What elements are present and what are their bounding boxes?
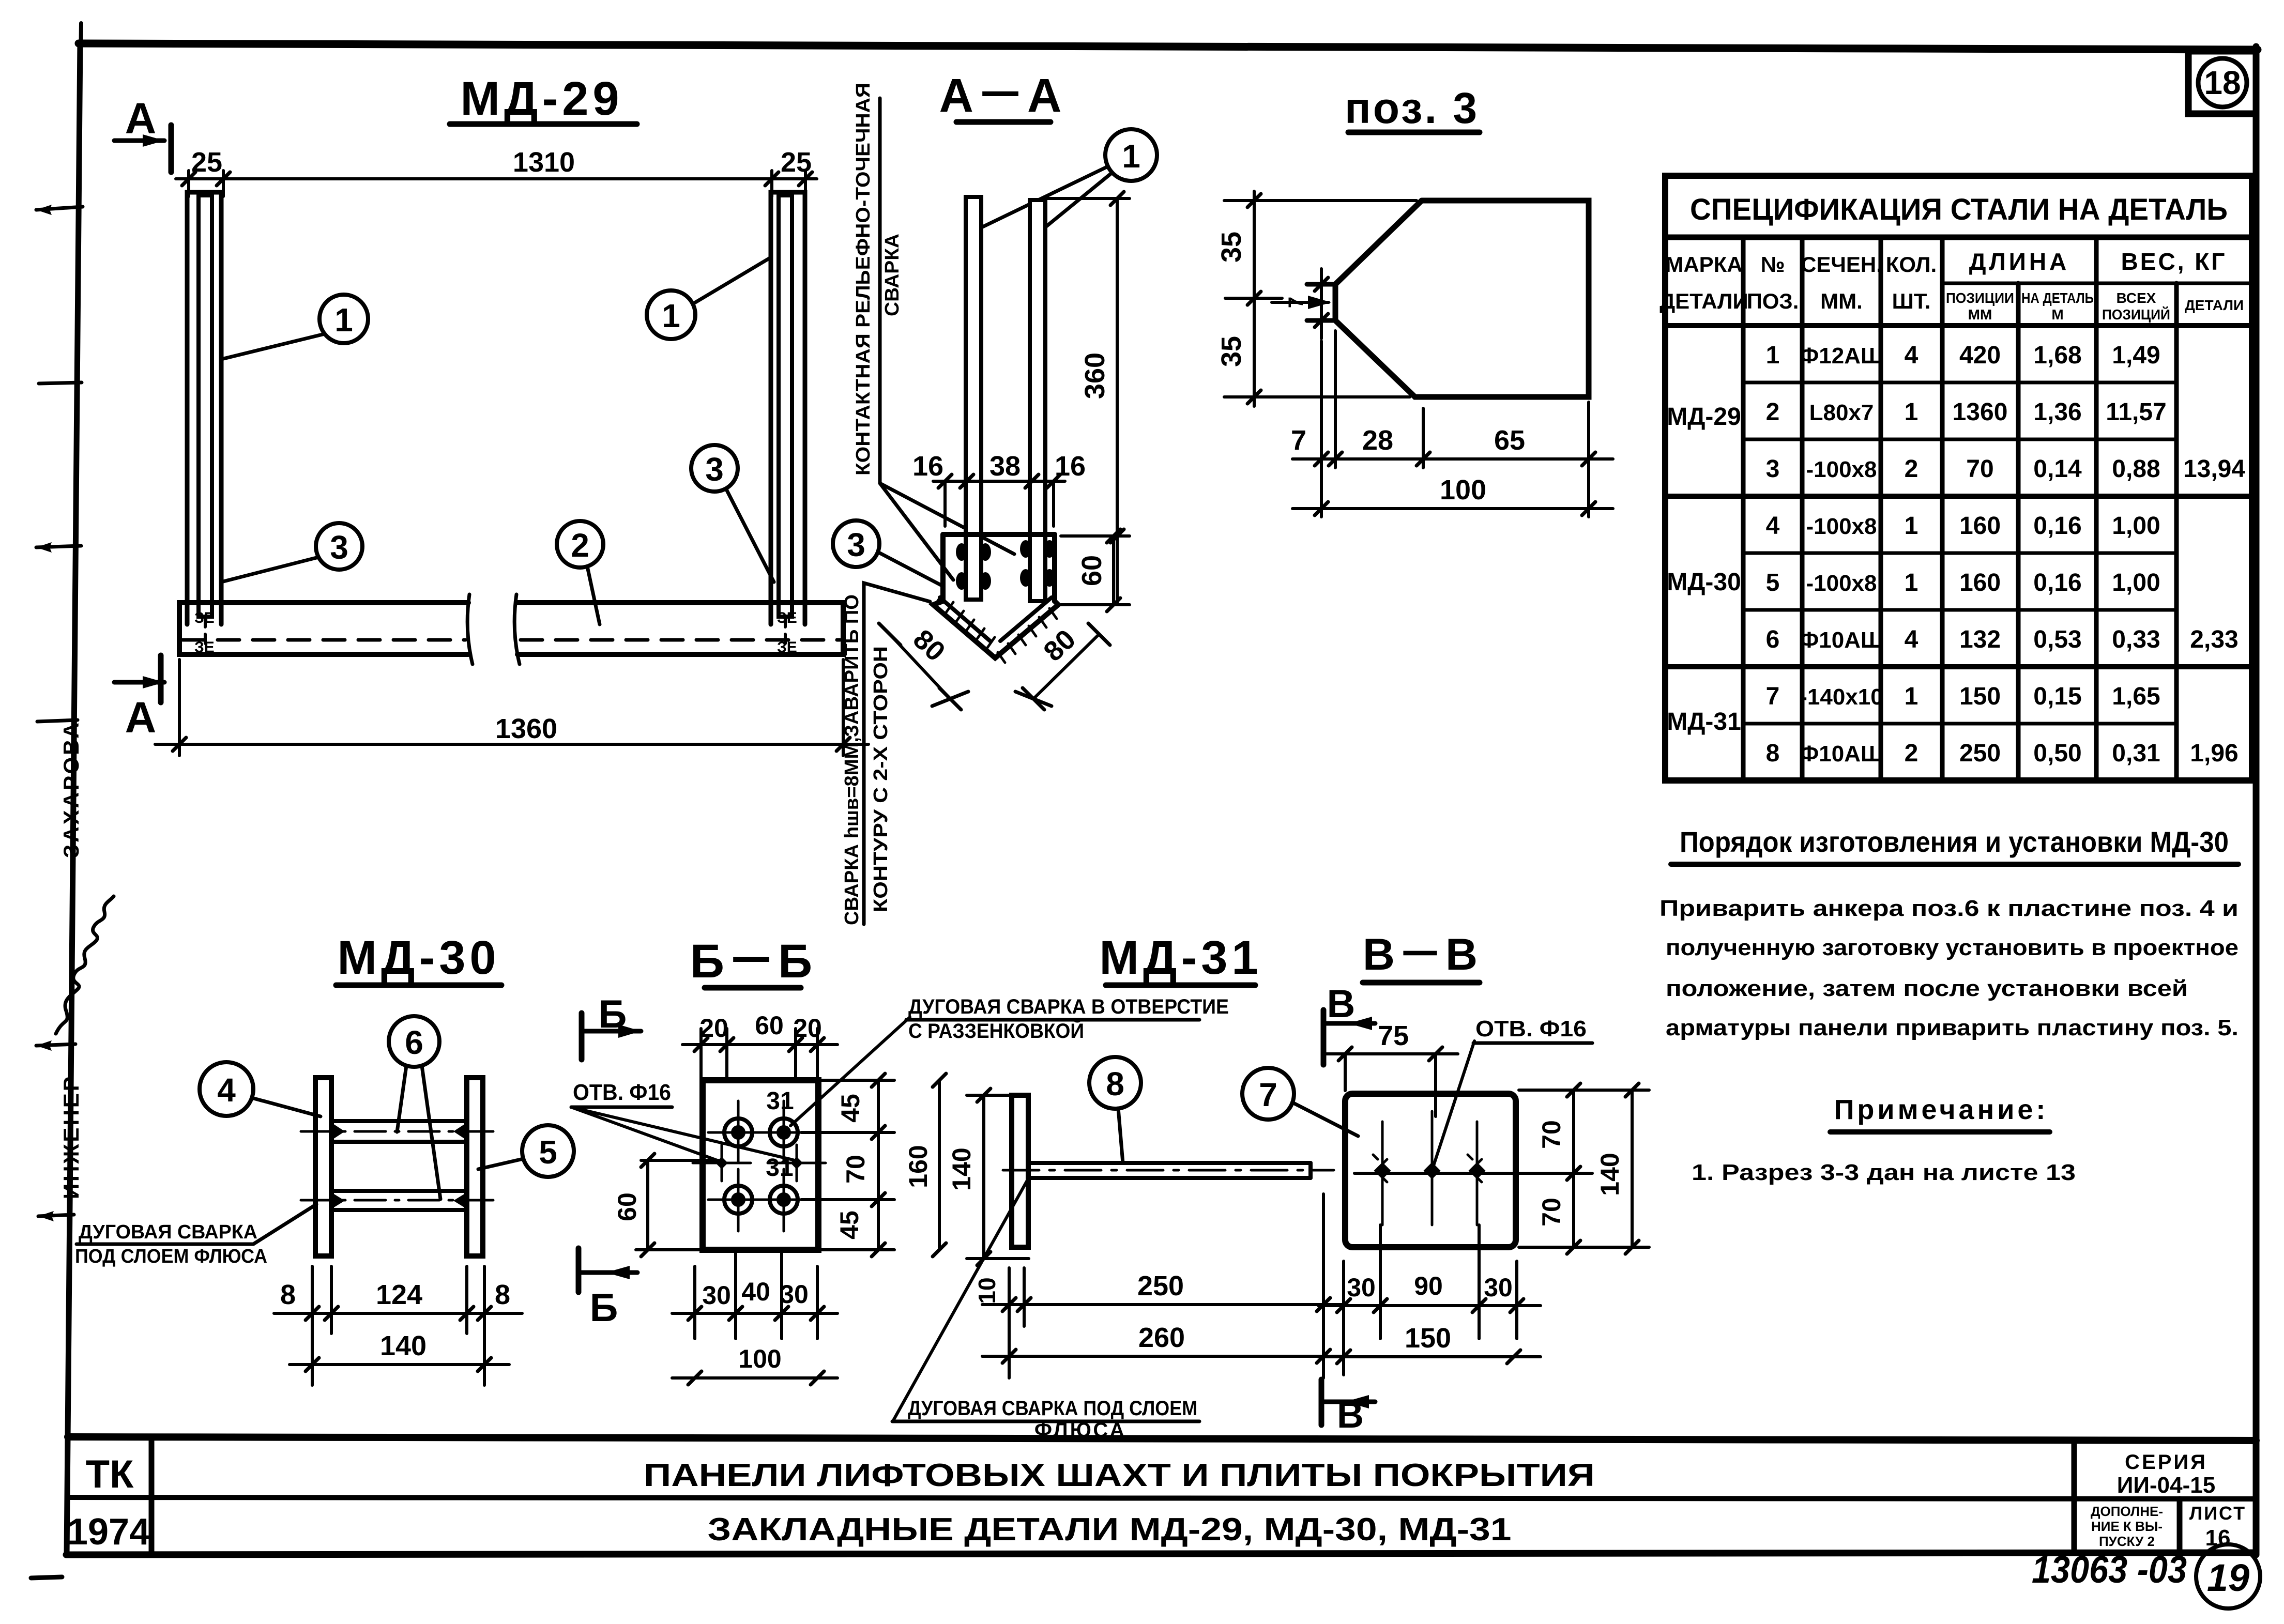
svg-text:ЗЕ: ЗЕ [777, 609, 797, 626]
weld hatch on V (A-A) [936, 593, 1057, 663]
right plate pos.5 [467, 1078, 483, 1256]
svg-text:ЗЕ: ЗЕ [194, 639, 215, 656]
svg-text:160: 160 [904, 1145, 933, 1188]
svg-text:1: 1 [662, 297, 680, 334]
svg-text:Приварить анкера поз.6 к пласт: Приварить анкера поз.6 к пластине поз. 4… [1659, 896, 2239, 921]
svg-text:А－А: А－А [939, 69, 1065, 122]
svg-text:4: 4 [217, 1071, 236, 1109]
svg-text:3: 3 [847, 526, 865, 563]
svg-text:А: А [125, 693, 157, 742]
svg-text:0,16: 0,16 [2033, 512, 2081, 540]
anchor bar bottom pos.6 [301, 1191, 497, 1210]
title В-В [1363, 930, 1481, 983]
table row 2 [1766, 399, 2167, 426]
svg-text:КОНТАКТНАЯ РЕЛЬЕФНО-ТОЧЕЧНАЯ: КОНТАКТНАЯ РЕЛЬЕФНО-ТОЧЕЧНАЯ [852, 83, 874, 476]
section mark В top [1323, 982, 1375, 1065]
heading Порядок изготовления и установки МД-30 [1671, 825, 2239, 864]
svg-text:100: 100 [738, 1344, 781, 1373]
svg-text:ММ.: ММ. [1820, 289, 1863, 313]
svg-text:150: 150 [1959, 683, 2001, 710]
svg-text:1,96: 1,96 [2190, 740, 2238, 767]
svg-text:70: 70 [841, 1155, 870, 1184]
dims 70 70 right (В-В) [1519, 1083, 1649, 1254]
svg-text:ТК: ТК [86, 1452, 134, 1496]
svg-text:1360: 1360 [1953, 399, 2008, 426]
svg-text:В: В [1327, 982, 1356, 1026]
dim 140 right (В-В) [1595, 1083, 1639, 1254]
svg-text:0,31: 0,31 [2112, 740, 2160, 767]
svg-text:Б－Б: Б－Б [690, 935, 815, 988]
svg-text:8: 8 [1766, 740, 1780, 767]
svg-text:1,00: 1,00 [2112, 512, 2160, 540]
left plate pos.4 [315, 1078, 331, 1256]
svg-text:МД-31: МД-31 [1099, 931, 1262, 984]
dim 75 (В-В) [1323, 1020, 1458, 1116]
svg-text:ШТ.: ШТ. [1892, 289, 1931, 313]
svg-text:ВСЕХ: ВСЕХ [2116, 290, 2156, 306]
dims 10 250 (МД-31) [973, 1194, 1344, 1378]
sheet number box (18) top right [2188, 51, 2256, 114]
svg-text:140: 140 [1595, 1153, 1624, 1196]
dim 360 (A-A) [1045, 192, 1130, 605]
svg-text:поз. 3: поз. 3 [1345, 84, 1479, 132]
svg-text:ЗЕ: ЗЕ [194, 609, 215, 626]
svg-text:140: 140 [947, 1147, 976, 1190]
svg-text:1: 1 [1905, 683, 1918, 710]
svg-text:45: 45 [835, 1211, 864, 1239]
svg-text:СЕЧЕН.: СЕЧЕН. [1801, 252, 1882, 277]
svg-text:ПАНЕЛИ ЛИФТОВЫХ ШАХТ И ПЛИТЫ П: ПАНЕЛИ ЛИФТОВЫХ ШАХТ И ПЛИТЫ ПОКРЫТИЯ [644, 1458, 1595, 1493]
svg-text:ЗАКЛАДНЫЕ ДЕТАЛИ МД-29, МД-30,: ЗАКЛАДНЫЕ ДЕТАЛИ МД-29, МД-30, МД-31 [708, 1512, 1512, 1548]
svg-text:3: 3 [705, 451, 724, 488]
vertical note СВАРКА h=8ММ ЗАВАРИТЬ ПО КОНТУРУ С 2-Х СТОРОН [841, 583, 930, 925]
label ОТВ. Ф 16 (Б-Б) [571, 1080, 793, 1161]
svg-text:арматуры панели приварить плас: арматуры панели приварить пластину поз. … [1666, 1015, 2239, 1040]
svg-text:140: 140 [380, 1330, 427, 1361]
svg-text:65: 65 [1494, 425, 1525, 456]
plate pos.3 in section (A-A) [933, 534, 1058, 658]
table grid [1665, 176, 2252, 780]
dim 60 (A-A) [1061, 529, 1130, 611]
dims 30 40 30 bottom (Б-Б) [672, 1250, 838, 1339]
plate pos.7 (МД-31) [1012, 1095, 1028, 1247]
svg-text:1: 1 [1122, 137, 1140, 175]
svg-text:СЕРИЯ: СЕРИЯ [2125, 1451, 2207, 1474]
svg-text:1,65: 1,65 [2112, 683, 2160, 710]
table row 6 [1766, 626, 2239, 653]
dim 25 right (top) [765, 147, 817, 196]
svg-text:СВАРКА: СВАРКА [881, 234, 903, 316]
plate поз.3 outline [1307, 201, 1589, 397]
svg-text:28: 28 [1362, 425, 1393, 456]
svg-text:ДУГОВАЯ СВАРКА: ДУГОВАЯ СВАРКА [79, 1221, 257, 1243]
balloon 3 (A-A) [833, 520, 943, 586]
fold marks on left border [31, 205, 83, 1578]
table row 7 [1766, 683, 2160, 710]
svg-text:45: 45 [836, 1094, 865, 1123]
svg-text:ЛИСТ: ЛИСТ [2189, 1503, 2246, 1524]
dim 80 left slanted (A-A) [879, 623, 968, 710]
table row 8 [1766, 740, 2239, 767]
anchor rod left (A-A) [966, 197, 981, 600]
svg-text:ПОЗИЦИИ: ПОЗИЦИИ [1946, 290, 2014, 306]
svg-text:ЗАХАРОВА: ЗАХАРОВА [59, 721, 83, 858]
balloon 4 [200, 1062, 321, 1116]
svg-text:38: 38 [989, 451, 1021, 482]
svg-text:2: 2 [1905, 455, 1918, 483]
svg-text:1: 1 [334, 301, 353, 339]
dim 260 (МД-31) [982, 1322, 1344, 1363]
svg-text:260: 260 [1138, 1322, 1185, 1353]
svg-text:ПУСКУ 2: ПУСКУ 2 [2099, 1534, 2155, 1549]
right angle bar (pos 1 assembly) [771, 192, 805, 650]
svg-text:2,33: 2,33 [2190, 626, 2238, 653]
svg-text:2: 2 [1905, 740, 1918, 767]
svg-text:ОТВ. Ф16: ОТВ. Ф16 [1475, 1016, 1587, 1041]
svg-text:5: 5 [539, 1133, 557, 1171]
svg-text:30: 30 [1347, 1273, 1376, 1302]
table group labels [1667, 403, 1741, 736]
svg-text:8: 8 [280, 1279, 296, 1310]
table row 5 [1766, 569, 2160, 596]
title А-А [939, 69, 1065, 122]
svg-text:35: 35 [1216, 232, 1247, 263]
dim 140 (МД-30) [290, 1330, 509, 1371]
svg-text:4: 4 [1766, 512, 1780, 540]
title МД-31 [1099, 931, 1262, 985]
balloon 1 (left) [221, 295, 368, 359]
svg-text:А: А [125, 94, 157, 143]
dim 1360 (bottom) [155, 660, 869, 756]
section mark Б bottom [578, 1248, 637, 1330]
balloon 3 (right) [691, 445, 774, 582]
handwritten circle 19 [2196, 1544, 2260, 1608]
svg-text:18: 18 [2204, 64, 2241, 101]
svg-text:16: 16 [912, 451, 943, 482]
svg-text:ДУГОВАЯ СВАРКА В ОТВЕРСТИЕ: ДУГОВАЯ СВАРКА В ОТВЕРСТИЕ [908, 995, 1229, 1018]
svg-text:7: 7 [1766, 683, 1780, 710]
svg-text:90: 90 [1414, 1271, 1443, 1300]
title поз.3 [1345, 84, 1480, 132]
dims 30 90 30 bottom (В-В) [1318, 1225, 1541, 1375]
svg-text:Ф12АШ: Ф12АШ [1800, 343, 1884, 369]
apex arrow (поз.3) [1272, 269, 1331, 339]
left angle bar (pos 1 assembly) [187, 192, 221, 650]
title МД-30 [336, 931, 501, 985]
svg-text:ВЕС, КГ: ВЕС, КГ [2121, 248, 2227, 275]
svg-text:13,94: 13,94 [2183, 455, 2245, 483]
svg-text:1: 1 [1905, 399, 1918, 426]
svg-text:360: 360 [1079, 353, 1110, 399]
cell СЕРИЯ ИИ-04-15 [2117, 1451, 2215, 1498]
table row 3 [1766, 455, 2246, 483]
svg-text:30: 30 [780, 1280, 809, 1309]
svg-text:1,00: 1,00 [2112, 569, 2160, 596]
svg-text:ПОЗИЦИЙ: ПОЗИЦИЙ [2102, 306, 2170, 323]
svg-text:С РАЗЗЕНКОВКОЙ: С РАЗЗЕНКОВКОЙ [908, 1019, 1084, 1043]
dim 1310 (top) [235, 147, 772, 179]
svg-text:полученную заготовку установит: полученную заготовку установить в проект… [1666, 935, 2239, 960]
svg-text:2: 2 [571, 527, 589, 564]
cell ЛИСТ 16 [2189, 1503, 2246, 1551]
anchor bar top pos.6 [301, 1121, 497, 1142]
section mark Б top [582, 992, 641, 1060]
svg-text:1,68: 1,68 [2033, 342, 2081, 369]
svg-text:МД-31: МД-31 [1667, 708, 1741, 736]
svg-text:МД-29: МД-29 [460, 72, 623, 125]
contact weld spots (A-A) [956, 540, 1055, 590]
hole labels 31 (Б-Б) [766, 1087, 794, 1182]
heading Примечание [1830, 1094, 2050, 1132]
svg-text:8: 8 [495, 1279, 510, 1310]
svg-text:0,14: 0,14 [2033, 455, 2082, 483]
svg-text:124: 124 [376, 1279, 422, 1310]
svg-text:19: 19 [2207, 1556, 2249, 1599]
svg-text:3: 3 [330, 529, 348, 566]
svg-text:Б: Б [590, 1286, 618, 1330]
svg-text:L80x7: L80x7 [1809, 400, 1874, 425]
svg-text:1974: 1974 [67, 1511, 150, 1553]
balloon 5 [478, 1125, 574, 1177]
left margin vertical label ИНЖЕНЕР [59, 1075, 83, 1199]
svg-text:Ф10АШ: Ф10АШ [1800, 741, 1884, 767]
svg-text:ПОД СЛОЕМ ФЛЮСА: ПОД СЛОЕМ ФЛЮСА [75, 1246, 267, 1267]
dim 140 (МД-31 plate height) [947, 1089, 1029, 1265]
dim 16 38 16 (A-A) [912, 451, 1086, 526]
svg-text:1: 1 [1766, 342, 1780, 369]
svg-text:7: 7 [1285, 297, 1307, 308]
label ОТВ. Ф 16 (В-В) [1433, 1016, 1592, 1167]
holes (В-В) [1354, 1111, 1543, 1225]
label ДУГОВАЯ СВАРКА В ОТВЕРСТИЕ С РАЗЗЕНКОВКОЙ [790, 995, 1229, 1126]
svg-text:35: 35 [1216, 336, 1247, 367]
svg-text:СВАРКА hшв=8ММ,ЗАВАРИТЬ ПО: СВАРКА hшв=8ММ,ЗАВАРИТЬ ПО [841, 594, 863, 925]
svg-text:6: 6 [405, 1024, 423, 1061]
svg-text:НА ДЕТАЛЬ: НА ДЕТАЛЬ [2021, 290, 2094, 306]
svg-text:31: 31 [766, 1087, 794, 1115]
svg-text:5: 5 [1766, 569, 1780, 596]
svg-text:60: 60 [1076, 555, 1107, 586]
svg-text:100: 100 [1440, 474, 1486, 505]
svg-text:В: В [1337, 1395, 1364, 1436]
svg-text:0,33: 0,33 [2112, 626, 2160, 653]
dim 60 left (Б-Б) [613, 1154, 719, 1257]
svg-text:1,36: 1,36 [2033, 399, 2081, 426]
svg-text:420: 420 [1959, 342, 2001, 369]
svg-text:1: 1 [1905, 512, 1918, 540]
svg-text:НИЕ К ВЫ-: НИЕ К ВЫ- [2091, 1519, 2163, 1534]
svg-text:70: 70 [1537, 1198, 1566, 1227]
svg-text:150: 150 [1405, 1323, 1451, 1354]
svg-text:ОТВ. Ф16: ОТВ. Ф16 [573, 1080, 671, 1105]
svg-text:8: 8 [1106, 1065, 1124, 1102]
dims 20 60 20 top (Б-Б) [682, 1011, 838, 1078]
svg-text:ДЕТАЛИ: ДЕТАЛИ [1659, 289, 1748, 313]
svg-text:20: 20 [793, 1014, 822, 1043]
balloon 8 [1089, 1057, 1141, 1163]
svg-text:положение, затем после установ: положение, затем после установки всей [1666, 976, 2188, 1001]
svg-text:160: 160 [1959, 512, 2001, 540]
title МД-29 [450, 72, 637, 125]
svg-text:1. Разрез 3-3 дан на листе 13: 1. Разрез 3-3 дан на листе 13 [1692, 1160, 2076, 1185]
balloon 3 (left) [221, 523, 362, 582]
svg-text:0,88: 0,88 [2112, 455, 2160, 483]
svg-text:3: 3 [1766, 455, 1780, 483]
svg-text:ИИ-04-15: ИИ-04-15 [2117, 1473, 2215, 1498]
bottom plate (pos 2, angle L80x7) [179, 594, 843, 664]
svg-text:ИНЖЕНЕР: ИНЖЕНЕР [59, 1075, 83, 1199]
svg-text:Примечание:: Примечание: [1834, 1094, 2049, 1125]
title Б-Б [690, 935, 815, 988]
svg-text:20: 20 [699, 1014, 728, 1043]
svg-text:М: М [2051, 307, 2063, 323]
dim 80 right slanted (A-A) [1015, 623, 1110, 710]
cell дополнение к выпуску 2 [2091, 1504, 2163, 1549]
left margin vertical label ЗАХАРОВА [59, 721, 83, 858]
svg-text:25: 25 [781, 147, 812, 178]
svg-text:В－В: В－В [1363, 930, 1481, 979]
table row 4 [1766, 512, 2160, 540]
svg-text:ДЕТАЛИ: ДЕТАЛИ [2185, 297, 2244, 313]
svg-text:Б: Б [599, 992, 627, 1036]
dim 160 (Б-Б) [904, 1074, 946, 1257]
svg-text:Ф10АШ: Ф10АШ [1800, 627, 1884, 653]
svg-text:60: 60 [613, 1192, 642, 1221]
svg-text:1310: 1310 [513, 147, 575, 178]
svg-text:-100x8: -100x8 [1806, 514, 1877, 539]
balloon 6 [389, 1016, 440, 1199]
plate В-В [1345, 1094, 1516, 1247]
label ДУГОВАЯ СВАРКА ПОД СЛОЕМ ФЛЮСА (МД-31) [892, 1179, 1199, 1442]
svg-text:1: 1 [1905, 569, 1918, 596]
section mark A bottom [114, 655, 164, 742]
svg-text:ММ: ММ [1968, 307, 1992, 323]
dim 150 bottom (В-В) [1318, 1323, 1541, 1363]
svg-text:4: 4 [1905, 626, 1918, 653]
svg-text:-140x10: -140x10 [1800, 684, 1883, 710]
svg-text:СПЕЦИФИКАЦИЯ СТАЛИ НА ДЕТАЛЬ: СПЕЦИФИКАЦИЯ СТАЛИ НА ДЕТАЛЬ [1690, 193, 2228, 226]
center welding holes (Б-Б) [693, 1145, 826, 1181]
svg-text:1,49: 1,49 [2112, 342, 2160, 369]
svg-text:30: 30 [1484, 1273, 1513, 1302]
svg-text:250: 250 [1137, 1270, 1184, 1301]
svg-text:4: 4 [1905, 342, 1918, 369]
svg-text:ДЛИНА: ДЛИНА [1969, 248, 2070, 275]
svg-text:МАРКА: МАРКА [1665, 252, 1742, 277]
table headers [1659, 248, 2244, 323]
svg-text:ДОПОЛНЕ-: ДОПОЛНЕ- [2091, 1504, 2163, 1519]
svg-text:7: 7 [1291, 425, 1306, 456]
svg-text:75: 75 [1378, 1020, 1409, 1051]
balloon 7 [1242, 1068, 1358, 1136]
svg-text:ПОЗ.: ПОЗ. [1747, 289, 1799, 313]
rod pos.8 (МД-31) [1003, 1163, 1334, 1178]
svg-text:6: 6 [1766, 626, 1780, 653]
svg-text:ДУГОВАЯ СВАРКА ПОД СЛОЕМ: ДУГОВАЯ СВАРКА ПОД СЛОЕМ [908, 1397, 1197, 1420]
svg-text:КОЛ.: КОЛ. [1886, 252, 1937, 277]
svg-text:-100x8: -100x8 [1806, 571, 1877, 596]
svg-text:2: 2 [1766, 399, 1780, 426]
weld marks at bar roots [194, 609, 797, 656]
bolt holes with rings (Б-Б) [708, 1101, 820, 1231]
svg-text:МД-30: МД-30 [337, 931, 500, 984]
svg-text:60: 60 [755, 1011, 784, 1040]
svg-text:7: 7 [1259, 1076, 1277, 1113]
svg-text:250: 250 [1959, 740, 2001, 767]
label ДУГОВАЯ СВАРКА ПОД СЛОЕМ ФЛЮСА (МД-30) [75, 1204, 316, 1267]
svg-text:30: 30 [702, 1281, 731, 1310]
left margin signature squiggle [56, 896, 114, 1034]
balloon 2 [557, 521, 603, 624]
dim 25 left (top) [176, 147, 235, 196]
svg-text:70: 70 [1966, 455, 1993, 483]
dims 8 124 8 (МД-30) [274, 1266, 522, 1385]
svg-text:КОНТУРУ С 2-Х СТОРОН: КОНТУРУ С 2-Х СТОРОН [870, 646, 892, 912]
svg-text:0,50: 0,50 [2033, 740, 2081, 767]
section mark В bottom [1321, 1380, 1375, 1436]
dims 7 28 65 100 bottom (поз.3) [1291, 331, 1613, 517]
svg-text:10: 10 [973, 1277, 1000, 1304]
svg-text:1360: 1360 [495, 713, 557, 744]
svg-text:40: 40 [741, 1277, 770, 1306]
dims 45 70 45 right (Б-Б) [801, 1074, 894, 1257]
dim 35/35 left (поз.3) [1216, 191, 1417, 406]
svg-text:0,16: 0,16 [2033, 569, 2081, 596]
balloon 1 over A-A rods [974, 129, 1157, 233]
section mark A top [114, 94, 171, 172]
svg-text:13063 -03: 13063 -03 [2032, 1548, 2187, 1591]
balloon 1 (right) [647, 257, 771, 339]
dim 100 bottom (Б-Б) [672, 1344, 838, 1385]
svg-text:0,53: 0,53 [2033, 626, 2081, 653]
svg-text:МД-30: МД-30 [1667, 569, 1741, 596]
svg-text:70: 70 [1537, 1120, 1566, 1149]
table row 1 [1766, 342, 2160, 369]
note paragraph [1659, 896, 2239, 1040]
svg-text:11,57: 11,57 [2106, 399, 2166, 426]
svg-text:0,15: 0,15 [2033, 683, 2081, 710]
plate Б-Б [703, 1080, 818, 1250]
svg-text:Порядок изготовления и установ: Порядок изготовления и установки МД-30 [1680, 825, 2229, 858]
vertical note КОНТАКТНАЯ РЕЛЬЕФНО-ТОЧЕЧНАЯ СВАРКА [852, 83, 1014, 580]
svg-text:160: 160 [1959, 569, 2001, 596]
svg-text:МД-29: МД-29 [1667, 403, 1741, 431]
svg-text:ЗЕ: ЗЕ [777, 639, 797, 656]
svg-text:№: № [1761, 252, 1785, 277]
svg-text:-100x8: -100x8 [1806, 457, 1877, 482]
anchor rod right (A-A) [1030, 200, 1045, 601]
svg-text:132: 132 [1959, 626, 2001, 653]
